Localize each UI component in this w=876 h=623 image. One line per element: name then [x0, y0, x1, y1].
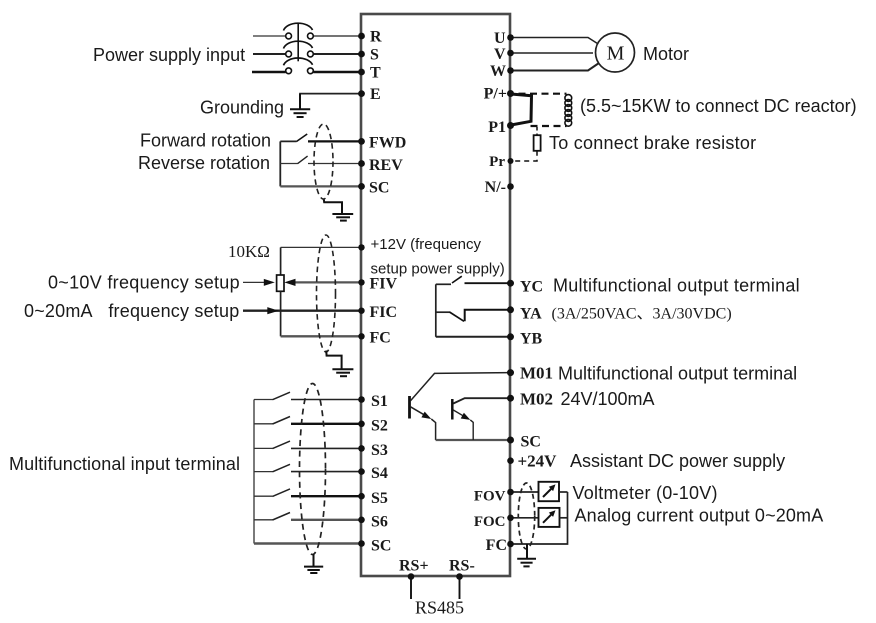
node Pr: [508, 158, 514, 164]
relay contact YC: [436, 283, 451, 285]
wire T input left segment: [252, 71, 286, 74]
wire S5: [291, 495, 361, 497]
wire FC (analog common): [281, 335, 361, 337]
node YB: [507, 333, 514, 340]
node P/+: [507, 90, 514, 97]
wire FWD: [308, 140, 361, 142]
svg-text:N/-: N/-: [485, 179, 506, 196]
svg-text:FWD: FWD: [369, 135, 406, 152]
node FC: [358, 333, 364, 339]
svg-text:Analog current output 0~20mA: Analog current output 0~20mA: [575, 506, 824, 526]
FWD/REV bracket wire: [279, 141, 281, 186]
wire REV: [308, 163, 361, 165]
svg-text:FC: FC: [370, 330, 391, 347]
wire ammeter to bus: [560, 517, 568, 519]
wire FOV: [510, 491, 539, 493]
relay contact YA: [436, 311, 450, 313]
svg-text:To connect brake resistor: To connect brake resistor: [549, 133, 756, 153]
DC reactor dashed box: [519, 93, 567, 95]
svg-text:Pr: Pr: [489, 154, 505, 170]
svg-text:RS+: RS+: [399, 558, 429, 575]
ground (meter common): [517, 544, 536, 566]
shield ellipse (FWD/REV cable): [314, 124, 333, 199]
switch S6: [254, 519, 273, 521]
svg-text:SC: SC: [521, 434, 541, 451]
wire RS- stub: [459, 577, 461, 600]
node FWD: [358, 138, 365, 145]
node FOV: [507, 489, 514, 496]
svg-text:YC: YC: [520, 279, 543, 296]
node FIC: [358, 308, 364, 314]
node SC lower: [358, 540, 365, 547]
ground (input shield): [304, 554, 323, 573]
svg-text:(5.5~15KW to connect DC reacto: (5.5~15KW to connect DC reactor): [580, 96, 857, 116]
svg-text:Power supply input: Power supply input: [93, 45, 245, 65]
svg-text:REV: REV: [369, 157, 403, 174]
svg-text:Assistant DC power supply: Assistant DC power supply: [570, 451, 785, 471]
svg-text:S6: S6: [371, 514, 388, 531]
wire R input right segment: [313, 35, 361, 37]
wire S3: [291, 447, 361, 449]
svg-text:P/+: P/+: [484, 86, 507, 103]
node S3: [358, 445, 365, 452]
potentiometer 10K body: [277, 275, 284, 291]
node S4: [358, 468, 365, 475]
svg-text:FOC: FOC: [474, 514, 506, 530]
svg-text:P1: P1: [488, 119, 506, 136]
breaker gang linkage: [297, 23, 299, 61]
transistor Q2 bar: [451, 399, 454, 420]
node N/-: [507, 183, 514, 190]
node FIV: [358, 279, 364, 285]
wire YB: [436, 336, 510, 338]
svg-text:+12V (frequency: +12V (frequency: [371, 236, 482, 253]
svg-text:RS-: RS-: [449, 558, 475, 575]
transistor Q1 bar: [408, 396, 411, 419]
svg-text:S5: S5: [371, 490, 388, 507]
inverter main box: [361, 14, 510, 576]
breaker pole S contacts: [286, 51, 292, 57]
switch REV: [280, 163, 297, 165]
svg-text:W: W: [490, 63, 506, 80]
node S1: [358, 396, 365, 403]
svg-text:Multifunctional output termina: Multifunctional output terminal: [558, 364, 797, 384]
switch S3: [254, 447, 273, 449]
svg-text:S2: S2: [371, 418, 388, 435]
svg-text:M01: M01: [520, 364, 553, 383]
wire +12V: [281, 246, 361, 248]
wire YC: [465, 282, 511, 284]
wire E: [299, 93, 361, 95]
brake resistor body: [534, 135, 541, 151]
svg-text:0~10V frequency setup: 0~10V frequency setup: [48, 273, 240, 293]
svg-text:S1: S1: [371, 393, 388, 410]
wire T input right segment: [313, 71, 361, 74]
svg-text:FC: FC: [486, 537, 507, 554]
node R: [358, 33, 365, 40]
node +12V: [358, 244, 364, 250]
svg-text:T: T: [370, 65, 381, 82]
wire S input left segment: [253, 53, 286, 55]
node RS-: [456, 573, 463, 580]
transistor Q1 collector: [411, 373, 511, 401]
wire FIV (wiper): [294, 281, 361, 283]
wire FIC with arrow: [243, 310, 361, 312]
wire SC (lower): [254, 542, 361, 544]
svg-text:R: R: [370, 29, 382, 46]
breaker pole R contacts: [286, 33, 292, 39]
node M02: [507, 395, 514, 402]
wire FOC: [510, 517, 539, 519]
voltmeter box: [539, 482, 560, 501]
shield ellipse (input cable): [300, 384, 326, 555]
wire voltmeter to bus: [559, 491, 568, 493]
potentiometer 10K lower leg: [280, 291, 282, 336]
ground (analog shield): [326, 351, 353, 377]
wire S6: [291, 519, 361, 521]
wire S1: [291, 399, 361, 401]
motor M1 circle: [596, 33, 635, 72]
breaker pole R arc: [284, 23, 313, 30]
svg-text:Grounding: Grounding: [200, 98, 284, 118]
wire V: [510, 52, 593, 54]
svg-text:RS485: RS485: [415, 598, 464, 618]
svg-text:S: S: [370, 47, 379, 64]
relay bracket wire: [435, 284, 437, 337]
svg-text:S3: S3: [371, 442, 388, 459]
breaker pole T contacts: [286, 68, 292, 74]
svg-text:0~20mA frequency setup: 0~20mA frequency setup: [24, 301, 239, 321]
node E: [358, 90, 365, 97]
ground (E grounding): [290, 94, 310, 117]
jumper P/+ to P1: [511, 94, 532, 125]
node REV: [358, 160, 365, 167]
wire S2: [291, 423, 361, 425]
wire RS+ stub: [410, 577, 412, 600]
0~10V setup arrow: [243, 281, 265, 283]
ammeter box: [539, 508, 560, 527]
wire S4: [291, 471, 361, 473]
svg-text:Motor: Motor: [643, 44, 689, 64]
node FC right: [507, 541, 514, 548]
svg-text:E: E: [370, 86, 381, 103]
svg-text:Voltmeter (0-10V): Voltmeter (0-10V): [573, 483, 718, 503]
svg-text:SC: SC: [369, 180, 389, 197]
svg-text:M02: M02: [520, 390, 553, 409]
svg-text:Reverse rotation: Reverse rotation: [138, 153, 270, 173]
potentiometer 10K upper leg: [280, 247, 282, 275]
svg-text:Multifunctional input terminal: Multifunctional input terminal: [9, 454, 240, 474]
node YA: [507, 306, 514, 313]
multifunction input bracket wire: [253, 400, 255, 544]
DC reactor coil: [565, 95, 572, 127]
node W: [507, 67, 514, 74]
meter return bus: [510, 492, 568, 544]
wire U: [510, 38, 599, 45]
svg-text:10KΩ: 10KΩ: [228, 242, 270, 261]
brake resistor lower dashed: [512, 151, 537, 161]
svg-text:U: U: [494, 30, 506, 47]
switch FWD: [280, 140, 296, 142]
brake resistor stem dashed: [536, 127, 538, 135]
svg-text:Forward rotation: Forward rotation: [140, 131, 271, 151]
breaker pole T arc: [284, 58, 313, 65]
switch S4: [254, 471, 273, 473]
shield ellipse (analog cable): [317, 235, 336, 352]
node SC upper: [358, 183, 365, 190]
node S5: [358, 493, 365, 500]
node P1: [507, 122, 514, 129]
svg-text:SC: SC: [371, 538, 391, 555]
node RS+: [408, 573, 415, 580]
transistor Q2 emitter with arrow: [453, 410, 464, 416]
svg-text:YA: YA: [520, 306, 542, 323]
shield ellipse (meter leads): [518, 483, 534, 549]
node S: [358, 51, 365, 58]
wire SC (upper): [280, 185, 361, 187]
transistor Q1 emitter with arrow: [411, 407, 426, 416]
svg-text:YB: YB: [520, 331, 543, 348]
ground (FWD/REV shield): [324, 200, 353, 221]
svg-text:(3A/250VAC、3A/30VDC): (3A/250VAC、3A/30VDC): [552, 306, 732, 323]
svg-text:FIV: FIV: [370, 276, 398, 293]
transistor Q2 collector: [453, 398, 510, 403]
node +24V: [507, 457, 514, 464]
node V: [507, 50, 514, 57]
svg-text:FIC: FIC: [370, 304, 398, 321]
wire S input right segment: [313, 53, 361, 55]
svg-text:FOV: FOV: [474, 489, 506, 505]
wire W: [510, 63, 599, 71]
wire SC output: [436, 439, 510, 441]
svg-text:V: V: [494, 46, 506, 63]
switch S1: [254, 399, 273, 401]
wiper arrowhead: [284, 279, 295, 286]
wire R input left segment: [253, 35, 286, 37]
node S2: [358, 421, 365, 428]
node M01: [507, 369, 514, 376]
node S6: [358, 517, 365, 524]
node SC output: [507, 437, 514, 444]
node U: [507, 34, 514, 41]
svg-text:S4: S4: [371, 465, 388, 482]
switch S5: [254, 495, 273, 497]
svg-text:+24V: +24V: [518, 452, 558, 471]
svg-text:24V/100mA: 24V/100mA: [561, 389, 655, 409]
node FOC: [507, 515, 514, 522]
breaker pole S arc: [284, 41, 313, 48]
svg-text:M: M: [607, 43, 625, 65]
switch S2: [254, 423, 273, 425]
node YC: [507, 280, 514, 287]
svg-text:Multifunctional output termina: Multifunctional output terminal: [553, 276, 800, 296]
node T: [358, 69, 365, 76]
